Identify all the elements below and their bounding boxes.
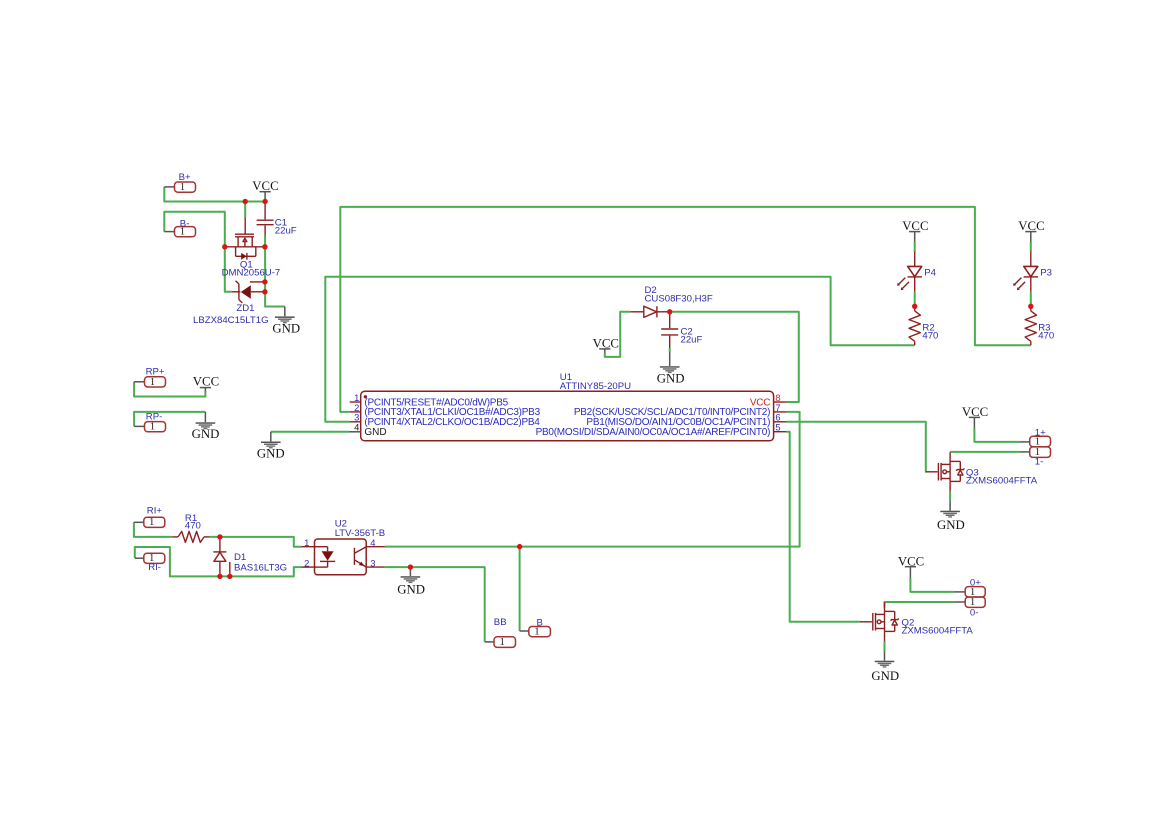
LED P3 (1013, 252, 1038, 292)
svg-text:(PCINT4/XTAL2/CLKO/OC1B/ADC2)P: (PCINT4/XTAL2/CLKO/OC1B/ADC2)PB4 (364, 417, 540, 428)
transistor Q1 (225, 218, 265, 260)
GND symbol Q3 (949, 501, 951, 511)
connector RP+ pin stub (134, 381, 144, 383)
connector 1- pin stub (1020, 451, 1030, 453)
wire U2 pin3 to BB (385, 567, 485, 642)
connector RP- (145, 422, 166, 432)
connector 0- (965, 597, 985, 607)
wire U1 pin8 to D2 cathode node (670, 312, 799, 402)
svg-text:B-: B- (180, 218, 190, 229)
junction ZD1 cathode rail (262, 289, 267, 294)
svg-text:P4: P4 (924, 267, 936, 278)
connector RI- (144, 553, 165, 563)
svg-text:RP+: RP+ (146, 366, 165, 377)
svg-text:VCC: VCC (193, 375, 219, 389)
connector B+ pin stub (164, 186, 174, 188)
svg-text:RI+: RI+ (147, 506, 163, 517)
svg-text:470: 470 (922, 330, 938, 341)
svg-text:ZD1: ZD1 (236, 303, 254, 314)
svg-text:VCC: VCC (962, 405, 988, 419)
wire connector 0- to Q2 drain (885, 602, 955, 608)
connector 0+ pin stub (954, 591, 965, 593)
connector RI+ pin stub (134, 521, 144, 523)
svg-text:4: 4 (370, 537, 375, 548)
VCC symbol Q2 (905, 566, 916, 568)
wire VCC to LED P4 (914, 242, 916, 252)
wire drop to connector B (519, 547, 521, 631)
wire U1 pin3 to R2 bottom (325, 277, 914, 422)
wire B+ pin to VCC rail (164, 187, 265, 202)
capacitor C1 (257, 203, 274, 236)
svg-text:VCC: VCC (902, 219, 928, 233)
svg-text:ATTINY85-20PU: ATTINY85-20PU (560, 381, 631, 392)
wire Q1 drain drop (244, 202, 246, 218)
connector BB (494, 637, 516, 648)
junction P4 R2 (912, 304, 917, 309)
svg-text:GND: GND (937, 518, 965, 532)
junction Q1 drain right rail (262, 244, 267, 249)
VCC symbol P4 (909, 231, 920, 233)
svg-text:470: 470 (1038, 330, 1054, 341)
connector RI- pin stub (135, 557, 144, 559)
junction B+ Q1 drain (243, 199, 248, 204)
wire C2 to GND (669, 348, 671, 352)
svg-text:ZXMS6004FFTA: ZXMS6004FFTA (966, 475, 1038, 486)
svg-text:BAS16LT3G: BAS16LT3G (234, 563, 287, 574)
optocoupler U2 (301, 539, 384, 575)
svg-text:D1: D1 (234, 552, 246, 563)
op-amp U1 body (349, 391, 787, 441)
svg-text:1+: 1+ (1035, 427, 1046, 438)
diode D1 (213, 537, 229, 577)
junction Q1 source left (222, 244, 227, 249)
wire LED P3 to R3 junction (1030, 292, 1032, 307)
junction U2 pin3 GND (408, 564, 413, 569)
junction B drop (517, 544, 522, 549)
wire LED P4 to R2 junction (914, 292, 916, 307)
wire U1 pin6 to Q3 gate (786, 422, 926, 472)
VCC symbol D2 (599, 348, 610, 350)
connector RI+ (144, 517, 165, 527)
GND symbol U1 pin4 (270, 432, 272, 442)
connector RP- pin stub (134, 425, 144, 427)
wire RP- to GND (134, 412, 205, 427)
svg-text:470: 470 (185, 521, 201, 532)
junction R1 D1 top (217, 534, 222, 539)
zener diode ZD1 (232, 281, 265, 303)
svg-text:VCC: VCC (593, 337, 619, 351)
connector 1- (1030, 447, 1051, 458)
connector 0- pin stub (954, 601, 965, 603)
svg-text:2: 2 (304, 557, 309, 568)
resistor R2 (914, 306, 916, 311)
svg-text:22uF: 22uF (681, 335, 703, 346)
transistor Q3 (926, 452, 964, 491)
GND symbol Q2 (884, 651, 886, 660)
svg-text:B+: B+ (179, 172, 191, 183)
svg-text:VCC: VCC (1018, 219, 1044, 233)
svg-text:0-: 0- (970, 607, 979, 618)
diode D2 (630, 306, 669, 317)
transistor Q2 (860, 602, 898, 641)
svg-text:1: 1 (150, 376, 155, 388)
wire U1 pin5 to Q2 gate (786, 432, 860, 622)
wire U1 pin2 to R3 bottom (340, 207, 1031, 412)
wire RP+ to VCC (134, 382, 205, 397)
capacitor C2 (661, 312, 678, 348)
wire RI- to U2 pin2 (135, 547, 302, 576)
GND symbol U2 pin3 (409, 567, 411, 576)
wire Q3 drain to connector 1- (950, 451, 1020, 453)
svg-text:LBZX84C15LT1G: LBZX84C15LT1G (193, 315, 269, 326)
svg-text:P3: P3 (1040, 267, 1052, 278)
GND symbol RP- (204, 412, 206, 422)
svg-text:GND: GND (397, 583, 425, 597)
wire Q3 source to GND (949, 491, 951, 500)
VCC symbol P3 (1025, 231, 1036, 233)
svg-text:3: 3 (370, 557, 375, 568)
svg-text:1: 1 (149, 516, 154, 528)
connector B- (175, 227, 196, 237)
wire B- to Q1 source and ZD1 (164, 212, 232, 292)
VCC symbol Q3 (969, 416, 980, 418)
junction D2 C2 (667, 309, 672, 314)
svg-text:CUS08F30,H3F: CUS08F30,H3F (645, 294, 713, 305)
connector B (529, 627, 551, 637)
svg-text:1: 1 (304, 537, 309, 548)
wire C1 bottom rail to GND (265, 236, 285, 307)
svg-text:ZXMS6004FFTA: ZXMS6004FFTA (902, 625, 974, 636)
svg-text:GND: GND (192, 427, 220, 441)
svg-text:4: 4 (354, 422, 359, 433)
GND symbol ZD1 node (284, 307, 286, 317)
wire RI+ to R1 (134, 522, 172, 537)
junction ZD1 nc stub (262, 279, 267, 284)
svg-text:GND: GND (871, 669, 899, 683)
svg-text:VCC: VCC (252, 179, 278, 193)
svg-text:LTV-356T-B: LTV-356T-B (335, 528, 385, 539)
wire U1 pin4 to GND (271, 431, 349, 433)
svg-text:1: 1 (499, 636, 504, 648)
wire VCC to connector 0+ (910, 578, 954, 592)
svg-text:5: 5 (775, 422, 780, 433)
connector B+ (175, 182, 196, 192)
VCC symbol B+ node (260, 191, 271, 193)
svg-text:GND: GND (657, 372, 685, 386)
svg-text:GND: GND (257, 447, 285, 461)
connector B pin stub (520, 630, 529, 632)
svg-text:RP-: RP- (146, 412, 163, 423)
svg-text:GND: GND (364, 427, 386, 438)
connector 0+ (965, 587, 985, 597)
wire VCC to LED P3 (1030, 242, 1032, 252)
junction B+ VCC (262, 199, 267, 204)
svg-text:BB: BB (494, 617, 507, 628)
svg-text:0+: 0+ (970, 577, 981, 588)
junction D1 anode bottom (217, 574, 222, 579)
VCC symbol RP+ (200, 387, 211, 389)
connector BB pin stub (485, 641, 494, 643)
resistor R3 (1030, 306, 1032, 311)
svg-text:PB0(MOSI/DI/SDA/AIN0/OC0A/OC1A: PB0(MOSI/DI/SDA/AIN0/OC0A/OC1A#/AREF/PCI… (536, 427, 771, 438)
svg-text:GND: GND (272, 321, 300, 335)
wire Q2 source to GND (884, 641, 886, 651)
connector B- pin stub (164, 231, 174, 233)
svg-text:VCC: VCC (898, 554, 924, 568)
GND symbol C2 (669, 352, 671, 366)
wire U1 pin7 to U2 pin4 net (385, 412, 800, 547)
svg-text:1-: 1- (1035, 457, 1044, 468)
svg-text:RI-: RI- (148, 562, 161, 573)
wire VCC to D2 anode (605, 312, 631, 357)
svg-text:22uF: 22uF (275, 226, 297, 237)
wire R1 to U2 pin1 (210, 537, 302, 547)
LED P4 (897, 252, 922, 292)
svg-text:B: B (537, 617, 543, 628)
connector RP+ (145, 377, 166, 387)
wire VCC to connector 1+ (974, 428, 1019, 442)
connector 1+ (1030, 436, 1051, 447)
resistor R1 (172, 536, 178, 538)
junction P3 R3 (1028, 304, 1033, 309)
junction D1 nc bottom (227, 574, 232, 579)
connector 1+ pin stub (1020, 441, 1030, 443)
svg-text:DMN2056U-7: DMN2056U-7 (222, 268, 281, 279)
